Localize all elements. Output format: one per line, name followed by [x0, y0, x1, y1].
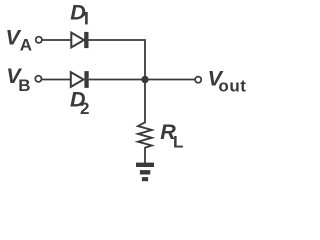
wire junction to resistor [144, 80, 146, 124]
node VB label [6, 64, 30, 95]
terminal VA [36, 37, 42, 43]
diode D2 [71, 71, 89, 88]
svg-text:B: B [18, 76, 30, 95]
terminal Vout [195, 77, 201, 83]
wire junction to Vout terminal [145, 79, 195, 81]
wire VA to D1 [42, 39, 72, 41]
diode D1 [71, 32, 88, 48]
svg-text:L: L [173, 132, 183, 151]
wire D2 to junction [89, 79, 145, 81]
resistor RL [138, 122, 152, 147]
node Vout label [208, 67, 247, 96]
svg-text:2: 2 [80, 99, 89, 118]
svg-text:D: D [70, 1, 86, 25]
label D2 [70, 88, 89, 118]
ground [136, 163, 154, 182]
label D1 [70, 1, 86, 25]
node VA label [6, 25, 33, 54]
wire resistor to ground [144, 147, 146, 164]
terminal VB [35, 76, 41, 82]
wire VB to D2 [42, 79, 71, 81]
junction node [141, 76, 148, 83]
svg-text:out: out [218, 77, 246, 96]
wire D1 to corner to junction [89, 40, 146, 80]
label RL [160, 120, 183, 151]
svg-text:A: A [20, 36, 32, 55]
